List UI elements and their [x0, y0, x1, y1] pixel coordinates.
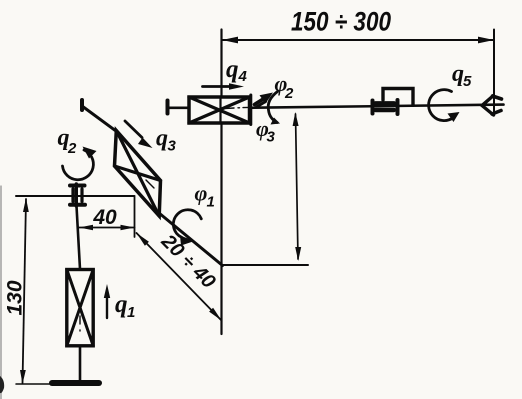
dimension 130 line: [23, 199, 27, 383]
svg-text:3: 3: [267, 129, 276, 146]
gripper lower finger: [492, 111, 501, 115]
dimension 150÷300 right arrowhead: [478, 37, 494, 44]
vertical base shaft: [77, 206, 81, 380]
q4 box right edge overshoot: [249, 95, 252, 125]
svg-text:2: 2: [284, 85, 294, 102]
revolute joint q2: top cap: [70, 184, 85, 188]
revolute joint q2: stem: [75, 184, 78, 206]
revolute joint q2: left tick: [71, 189, 74, 202]
coupling sleeve upper bar: [376, 101, 395, 105]
rotation arrow q2: [63, 150, 94, 180]
diagonal link end cap: [80, 100, 84, 110]
svg-text:1: 1: [127, 304, 135, 321]
lower arm diagonal link lower segment: [159, 213, 223, 266]
arrow q4: [203, 85, 232, 88]
base horizontal link line: [16, 195, 135, 197]
ground bar: [52, 380, 99, 386]
coupling sleeve lower bar: [376, 108, 395, 112]
scan artifact: left edge line: [0, 186, 2, 399]
dimension 150÷300 line: [222, 39, 494, 41]
revolute joint q2: bottom cap: [70, 203, 85, 207]
revolute joint q2: right tick: [80, 189, 83, 202]
right extension line of 150÷300 down to gripper: [493, 30, 495, 116]
svg-text:q: q: [226, 56, 239, 83]
svg-text:1: 1: [207, 194, 215, 211]
gripper V: [482, 96, 494, 116]
svg-text:5: 5: [463, 73, 472, 90]
elbow horizontal extension line: [222, 264, 309, 266]
svg-text:2: 2: [67, 140, 77, 157]
arrow q1: [106, 295, 108, 318]
svg-text:q: q: [156, 126, 168, 152]
svg-text:3: 3: [168, 138, 177, 155]
rotation arrow phi1: [173, 210, 201, 238]
shaft end cap: [166, 101, 170, 114]
q4 box centerline dash-dot: [224, 107, 249, 108]
svg-text:130: 130: [4, 280, 27, 315]
dimension 40 line: [79, 227, 135, 229]
svg-text:4: 4: [238, 68, 248, 85]
q4 box X cross: [189, 97, 250, 123]
q1 box X cross: [67, 270, 93, 346]
svg-text:150 ÷ 300: 150 ÷ 300: [291, 7, 391, 37]
prismatic joint q3 box (inclined): [115, 131, 161, 217]
horizontal arm shaft left stub: [168, 107, 193, 110]
vertical line through q4 box: [219, 97, 221, 123]
coupling tick right: [396, 100, 400, 114]
dimension 40 extension line: [134, 197, 136, 237]
q1 box centerline dash-dot: [79, 316, 81, 331]
vertical column line (left extension of 150÷300 down through q4 to elbow base): [220, 30, 222, 335]
gripper upper finger: [493, 96, 502, 99]
svg-text:q: q: [115, 291, 128, 318]
rotation arrow q5: [429, 90, 453, 121]
dimension 20÷40 line: [137, 233, 222, 321]
prismatic joint q1 box: [67, 270, 93, 346]
lower arm diagonal link: [82, 106, 118, 133]
dimension 150÷300 left arrowhead: [222, 37, 238, 44]
svg-text:40: 40: [92, 206, 117, 229]
q3 box centerline dash: [146, 180, 154, 188]
prismatic joint q4 box: [189, 97, 250, 123]
scan artifact: bottom-left blob: [0, 376, 4, 393]
q3 box X cross: [115, 131, 161, 217]
coupling tick left: [371, 101, 375, 114]
wrist arrow phi2: [255, 99, 265, 105]
coupling loop: [383, 89, 413, 106]
wrist arc phi3: [268, 92, 277, 123]
wrist arrow phi2 second stroke: [257, 102, 266, 108]
horizontal arm shaft (wrist to gripper): [248, 105, 504, 108]
dimension 130 bottom extension: [16, 383, 53, 385]
arrow q3: [125, 121, 142, 138]
vertical drop dimension line: [296, 114, 299, 259]
